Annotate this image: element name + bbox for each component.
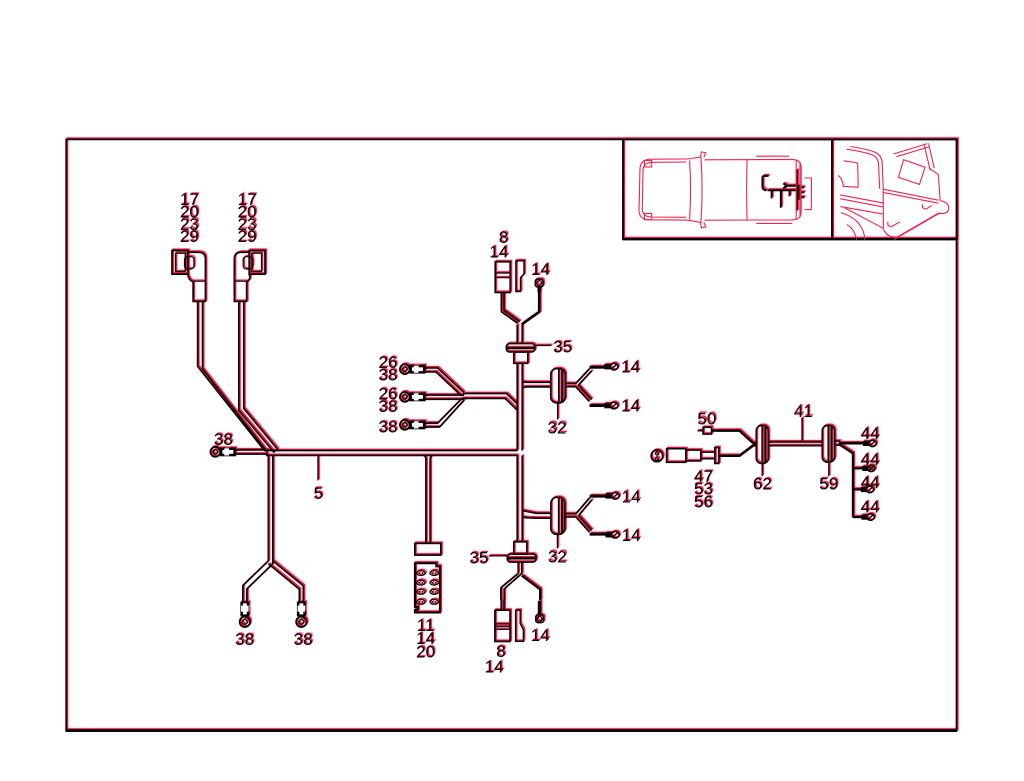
black pass: [66, 139, 957, 731]
vehicle top view outline: [639, 152, 811, 228]
red misregistration pass: [67, 138, 958, 730]
vehicle rear view outline: [838, 143, 949, 239]
red-only vehicle illustrations: [639, 143, 949, 239]
red misregistration haze pass: [68, 138, 959, 730]
